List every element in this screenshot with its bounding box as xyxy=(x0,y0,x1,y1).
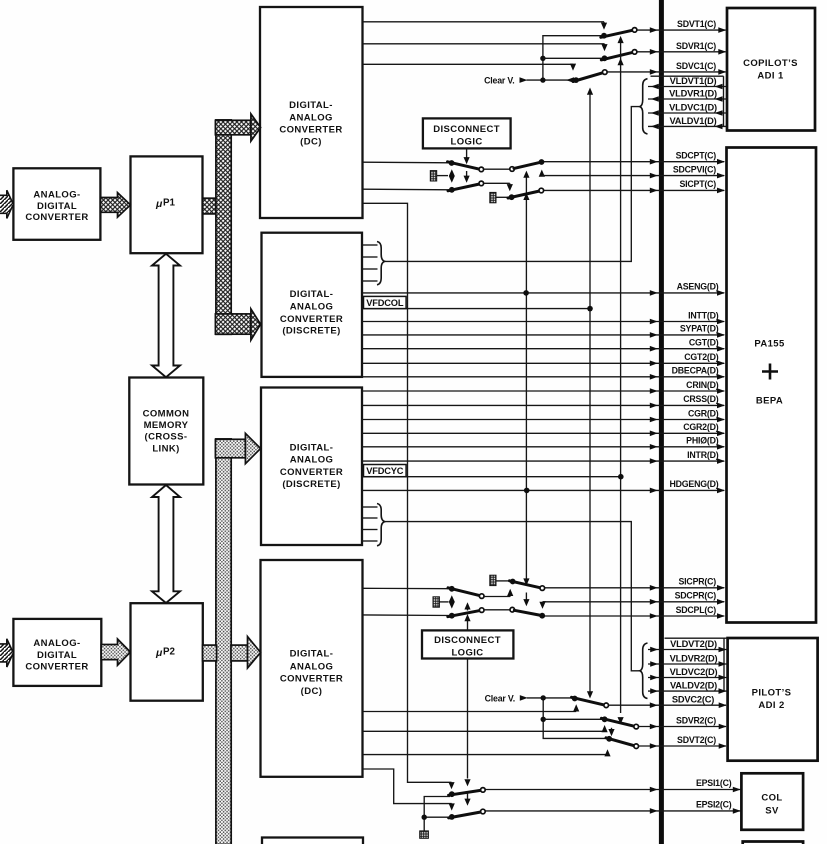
wire HDGENG(D) xyxy=(362,479,725,493)
svg-text:INTR(D): INTR(D) xyxy=(687,450,719,460)
wire SDVT1(C) xyxy=(637,19,726,33)
svg-text:COPILOT’S: COPILOT’S xyxy=(743,58,798,69)
wire INTR(D) xyxy=(362,450,725,464)
row B bottom link wire with up arrow xyxy=(484,589,513,597)
switch EPSI1 xyxy=(449,788,486,797)
SICPR pad link xyxy=(496,580,510,582)
wire SDVC2(C) xyxy=(609,695,727,709)
wire SDCPR(C) xyxy=(543,591,726,605)
wire VLDVT2(D) xyxy=(648,639,727,652)
svg-text:ANALOG: ANALOG xyxy=(290,302,334,313)
wire DAC2 feed row B bottom xyxy=(363,587,452,589)
EPSI ground network xyxy=(422,797,452,831)
disconnect logic 2 actuator down to EPSI xyxy=(464,659,470,806)
switch EPSI2 xyxy=(449,809,486,820)
arrow into Clear V branch 3 xyxy=(566,77,574,83)
SDCPR pickoff arrow above dot xyxy=(539,602,546,609)
stub arrow above SDVT2 dot xyxy=(608,728,614,736)
svg-text:DISCONNECT: DISCONNECT xyxy=(433,124,500,135)
wire EPSI1(C) xyxy=(485,778,741,792)
svg-text:DIGITAL-: DIGITAL- xyxy=(289,100,333,111)
row A bottom center link xyxy=(484,609,510,611)
svg-text:ANALOG-: ANALOG- xyxy=(33,189,80,200)
crosshatch bus: vertical trunk xyxy=(216,120,231,334)
svg-text:(DISCRETE): (DISCRETE) xyxy=(282,479,340,490)
wire VALDV2(D) xyxy=(648,681,727,694)
svg-text:Clear V.: Clear V. xyxy=(485,693,515,703)
svg-text:CONVERTER: CONVERTER xyxy=(280,467,343,478)
wire CRSS(D) xyxy=(362,394,725,408)
svg-text:(CROSS-: (CROSS- xyxy=(145,432,188,443)
switch SDVC1 xyxy=(573,70,607,83)
wire CGT(D) xyxy=(362,338,725,352)
svg-text:SDCPL(C): SDCPL(C) xyxy=(676,605,717,615)
VLDV1 table right border xyxy=(723,76,725,126)
switch row A SDCPT right half xyxy=(510,159,545,171)
switch row B bottom xyxy=(448,586,484,599)
wire DAC1 out 2 feed SDVR1 xyxy=(363,44,608,52)
hatch pad row A linkage xyxy=(430,171,436,181)
switch row A bottom left half xyxy=(448,608,484,619)
svg-text:ANALOG: ANALOG xyxy=(290,661,334,672)
svg-text:LINK): LINK) xyxy=(152,444,179,455)
svg-text:(DC): (DC) xyxy=(301,686,323,697)
junction Clear V top xyxy=(540,77,545,82)
bottom disconnect group: hatch pad SICPR xyxy=(490,575,496,585)
box: microprocessor uP2 xyxy=(131,603,203,701)
wire CGR2(D) xyxy=(362,422,725,436)
junction VFDCYC to actuator x620 xyxy=(618,474,624,480)
linkage link wire xyxy=(437,175,448,177)
svg-text:CONVERTER: CONVERTER xyxy=(280,674,343,685)
box: pilot's ADI 2 xyxy=(728,638,818,761)
svg-text:SICPR(C): SICPR(C) xyxy=(679,576,717,586)
svg-text:ADI 1: ADI 1 xyxy=(757,71,784,82)
svg-text:Clear V.: Clear V. xyxy=(484,75,514,85)
crosshatch bus: bottom arm into DAC discrete 1 xyxy=(215,309,260,340)
box: digital-analog converter (DC) top xyxy=(260,7,363,218)
svg-text:CGT(D): CGT(D) xyxy=(689,338,719,348)
wire VLDVC1(D) xyxy=(648,103,727,116)
box: PA155 + BEPA xyxy=(727,148,817,623)
svg-text:LOGIC: LOGIC xyxy=(451,647,483,658)
svg-text:INTT(D): INTT(D) xyxy=(688,310,719,320)
box: microprocessor uP1 xyxy=(131,156,203,253)
svg-text:COL: COL xyxy=(761,793,782,804)
wire ASENG(D) xyxy=(362,282,725,296)
hollow double arrow uP1 to memory xyxy=(152,254,180,377)
svg-text:SDVC1(C): SDVC1(C) xyxy=(676,61,716,71)
discrete DAC1 brace stub wires xyxy=(362,245,378,281)
svg-text:DBECPA(D): DBECPA(D) xyxy=(672,366,719,376)
stipple bus: vertical trunk xyxy=(216,439,231,844)
switch SICPR xyxy=(510,579,545,591)
svg-text:LOGIC: LOGIC xyxy=(451,136,483,147)
box: digital-analog converter (DC) bottom xyxy=(261,560,363,777)
wire VFDCOL with label box xyxy=(362,296,590,308)
SDCPVI pickoff arrow under dot xyxy=(539,170,545,177)
svg-text:COMMON: COMMON xyxy=(143,408,190,419)
box: digital-analog converter (discrete) top xyxy=(262,233,363,377)
junction Clear V bottom 2 xyxy=(541,717,546,722)
discrete DAC2 brace stub wires xyxy=(362,507,378,541)
stipple bus arrow ADC2 to uP2 xyxy=(101,639,130,665)
wire CGT2(D) xyxy=(362,352,725,366)
crosshatch bus: uP1 stub xyxy=(203,198,217,214)
row B link wire with down arrow at dot C xyxy=(484,183,513,191)
brace at discrete DAC1 stubs xyxy=(377,242,385,285)
svg-text:PILOT’S: PILOT’S xyxy=(752,688,792,699)
junction HDGENG to actuator x526 xyxy=(524,488,530,494)
svg-text:P2: P2 xyxy=(163,647,176,658)
box: copilot's ADI 1 xyxy=(727,8,815,131)
svg-text:SDCPR(C): SDCPR(C) xyxy=(675,591,717,601)
wire VLDVT1(D) xyxy=(648,76,727,89)
mechanical linkage diamond top group xyxy=(449,169,455,182)
svg-text:CONVERTER: CONVERTER xyxy=(25,212,88,223)
svg-text:VLDVR2(D): VLDVR2(D) xyxy=(670,654,718,664)
wire EPSI2(C) xyxy=(485,800,741,814)
wire DAC1 out 3 feed SDVC1 xyxy=(363,64,577,71)
wire VLDVC2(D) xyxy=(648,667,727,680)
svg-text:CONVERTER: CONVERTER xyxy=(279,124,342,135)
box: partial box bottom right xyxy=(743,842,803,844)
wire Clear V branch 2 to SDVR1 xyxy=(543,57,605,59)
box: common memory (cross-link) xyxy=(129,378,203,485)
svg-text:DIGITAL: DIGITAL xyxy=(37,650,77,661)
switch SDVR2 xyxy=(601,716,638,729)
hollow double arrow memory to uP2 xyxy=(152,485,180,603)
bottom linkage link xyxy=(439,601,448,603)
wire SICPR(C) xyxy=(545,576,725,590)
wire SDVR2(C) xyxy=(639,715,727,729)
stipple bus: top arm into DAC discrete 2 xyxy=(215,433,260,463)
Clear V. label bottom xyxy=(485,693,575,703)
brace grouping VLDV2 lines xyxy=(640,643,648,699)
wire CGR(D) xyxy=(362,408,725,422)
box: disconnect logic bottom xyxy=(422,630,513,658)
switch SDVR1 xyxy=(601,50,637,62)
svg-text:VFDCOL: VFDCOL xyxy=(366,298,404,308)
svg-text:VLDVT1(D): VLDVT1(D) xyxy=(670,76,717,86)
svg-text:SDVT1(C): SDVT1(C) xyxy=(677,19,716,29)
svg-text:DIGITAL-: DIGITAL- xyxy=(290,289,334,300)
VLDV2 table overline xyxy=(665,637,727,639)
stipple bus: cross arm into DAC DC 2 xyxy=(231,637,261,669)
svg-text:SDCPT(C): SDCPT(C) xyxy=(676,150,717,160)
svg-text:BEPA: BEPA xyxy=(756,396,783,407)
wire DAC2 feed SDVR2 xyxy=(363,725,608,732)
wire DAC1 out 1 feed SDVT1 xyxy=(363,22,608,30)
box: COL SV xyxy=(741,773,803,830)
svg-text:CONVERTER: CONVERTER xyxy=(25,661,88,672)
box: analog-digital converter 1 xyxy=(13,168,100,240)
actuator vertical x590 arrows xyxy=(587,88,593,699)
svg-text:SDVT2(C): SDVT2(C) xyxy=(677,735,716,745)
svg-text:SV: SV xyxy=(765,806,779,817)
svg-text:VFDCYC: VFDCYC xyxy=(366,466,404,476)
VLDV2 table right border xyxy=(723,638,725,691)
svg-text:ANALOG: ANALOG xyxy=(289,112,333,123)
wire SICPT(C) xyxy=(544,179,725,193)
svg-text:VALDV2(D): VALDV2(D) xyxy=(670,681,717,691)
switch row B xyxy=(448,181,484,193)
wire SYPAT(D) xyxy=(362,324,725,338)
svg-text:SDCPVI(C): SDCPVI(C) xyxy=(673,164,716,174)
junction ASENG to actuator x526 xyxy=(523,290,529,296)
svg-text:DIGITAL-: DIGITAL- xyxy=(290,443,334,454)
disconnect logic 1 actuator xyxy=(464,149,470,183)
wire VLDVR1(D) xyxy=(648,89,727,102)
svg-text:PHIØ(D): PHIØ(D) xyxy=(686,436,719,446)
switch SDVC2 xyxy=(572,696,609,708)
svg-text:VLDVC2(D): VLDVC2(D) xyxy=(670,667,718,677)
svg-text:VLDVT2(D): VLDVT2(D) xyxy=(670,639,717,649)
wire DAC2 feed SDVT2 xyxy=(363,749,611,756)
wire SDVR1(C) xyxy=(637,41,726,55)
switch row C SICPT xyxy=(508,188,544,200)
svg-text:ADI 2: ADI 2 xyxy=(758,700,784,711)
svg-text:MEMORY: MEMORY xyxy=(144,420,189,431)
svg-text:EPSI1(C): EPSI1(C) xyxy=(696,778,732,788)
svg-text:ANALOG-: ANALOG- xyxy=(33,638,80,649)
brace at discrete DAC2 stubs xyxy=(377,504,385,546)
wire INTT(D) xyxy=(362,310,725,324)
svg-text:DIGITAL: DIGITAL xyxy=(37,201,77,212)
hatched input arrow to ADC2 xyxy=(0,639,13,667)
heavy vertical bus bar xyxy=(659,0,664,844)
wire SDCPL(C) xyxy=(544,605,725,619)
svg-text:(DISCRETE): (DISCRETE) xyxy=(282,326,340,337)
wire DAC2 feed SDVC2 xyxy=(363,704,580,711)
wire SDVT2(C) xyxy=(639,735,727,749)
svg-text:VLDVC1(D): VLDVC1(D) xyxy=(669,103,717,113)
svg-text:PA155: PA155 xyxy=(754,339,785,350)
svg-text:CONVERTER: CONVERTER xyxy=(280,314,343,325)
Clear V. bottom dropper xyxy=(543,698,609,739)
box: disconnect logic top xyxy=(423,118,511,148)
crosshatch bus arrow ADC1 to uP1 xyxy=(101,193,131,218)
svg-text:μ: μ xyxy=(155,647,163,659)
wire SDCPT(C) xyxy=(542,150,726,164)
Clear V. label top xyxy=(484,75,573,85)
wire SDVC1(C) xyxy=(607,61,726,75)
switch row A bottom right half xyxy=(510,607,545,618)
VLDV1 table overline xyxy=(651,75,724,77)
row C pad link xyxy=(496,196,509,198)
box: digital-analog converter (discrete) bottom xyxy=(261,388,362,546)
svg-text:DIGITAL-: DIGITAL- xyxy=(290,648,334,659)
jog wire DAC2 bottom to EPSI2 xyxy=(363,769,455,811)
crosshatch bus: top arm into DAC DC 1 xyxy=(215,114,260,141)
svg-text:SDVC2(C): SDVC2(C) xyxy=(672,695,714,705)
svg-text:EPSI2(C): EPSI2(C) xyxy=(696,800,732,810)
brace grouping VLDV1 lines xyxy=(640,79,648,134)
svg-text:P1: P1 xyxy=(163,198,176,209)
hatch pad bottom linkage xyxy=(433,597,439,607)
disconnect logic 2 actuator up xyxy=(464,602,470,630)
switch row A SDCPT left half xyxy=(448,160,484,172)
wire PHI0(D) xyxy=(362,436,725,450)
hatch pad row C xyxy=(490,192,496,202)
wire DAC1 out 5 feed row B xyxy=(363,188,452,191)
svg-text:SICPT(C): SICPT(C) xyxy=(679,179,716,189)
actuator vertical x620 top arrows xyxy=(618,36,624,724)
wire DBECPA(D) xyxy=(362,366,725,380)
actuator vertical x526 xyxy=(523,171,529,607)
wire CRIN(D) xyxy=(362,380,725,394)
svg-text:VALDV1(D): VALDV1(D) xyxy=(669,116,716,126)
switch SDVT1 xyxy=(601,28,637,39)
svg-text:ANALOG: ANALOG xyxy=(290,455,334,466)
svg-text:(DC): (DC) xyxy=(300,136,322,147)
row A center link xyxy=(484,168,510,170)
svg-text:CRSS(D): CRSS(D) xyxy=(683,394,719,404)
svg-text:CGT2(D): CGT2(D) xyxy=(684,352,719,362)
svg-text:CGR(D): CGR(D) xyxy=(688,408,719,418)
svg-text:HDGENG(D): HDGENG(D) xyxy=(669,479,718,489)
svg-text:CGR2(D): CGR2(D) xyxy=(683,422,719,432)
wire SDCPVI(C) xyxy=(542,164,725,178)
EPSI ground hatch pad xyxy=(420,831,429,838)
stipple bus: uP2 stub xyxy=(203,645,217,661)
junction Clear V branch 2 xyxy=(540,56,545,61)
svg-text:μ: μ xyxy=(155,198,163,210)
jog wire DAC1 bottom to EPSI1 xyxy=(363,203,455,789)
wire VFDCYC with label box xyxy=(362,465,621,477)
wire VALDV1(D) xyxy=(648,116,727,129)
link wire VLDV1 brace to discrete DAC1 xyxy=(385,107,640,262)
svg-text:ASENG(D): ASENG(D) xyxy=(677,282,719,292)
wire VLDVR2(D) xyxy=(648,654,727,667)
svg-text:CRIN(D): CRIN(D) xyxy=(686,380,719,390)
switch SDVT2 xyxy=(606,736,639,749)
wire DAC2 feed row A bottom xyxy=(363,614,452,617)
svg-text:SDVR2(C): SDVR2(C) xyxy=(676,715,716,725)
Clear V. top feed riser xyxy=(543,36,604,80)
hatched input arrow to ADC1 xyxy=(0,190,13,218)
mechanical linkage diamond bottom group xyxy=(449,595,455,608)
junction VFDCOL to actuator x590 xyxy=(587,306,593,312)
svg-text:SYPAT(D): SYPAT(D) xyxy=(680,324,719,334)
svg-text:DISCONNECT: DISCONNECT xyxy=(434,635,501,646)
junction Clear V bottom 1 xyxy=(541,695,546,700)
link wire VLDV2 brace to discrete DAC2 xyxy=(385,522,640,671)
box: analog-digital converter 2 xyxy=(13,619,101,686)
box: digital-analog converter partial bottom edge xyxy=(262,838,363,844)
wire Clear V bottom branch 2 xyxy=(543,718,604,720)
svg-text:VLDVR1(D): VLDVR1(D) xyxy=(669,89,717,99)
wire DAC1 out 4 feed SDCPT row xyxy=(363,161,452,164)
svg-text:SDVR1(C): SDVR1(C) xyxy=(676,41,716,51)
